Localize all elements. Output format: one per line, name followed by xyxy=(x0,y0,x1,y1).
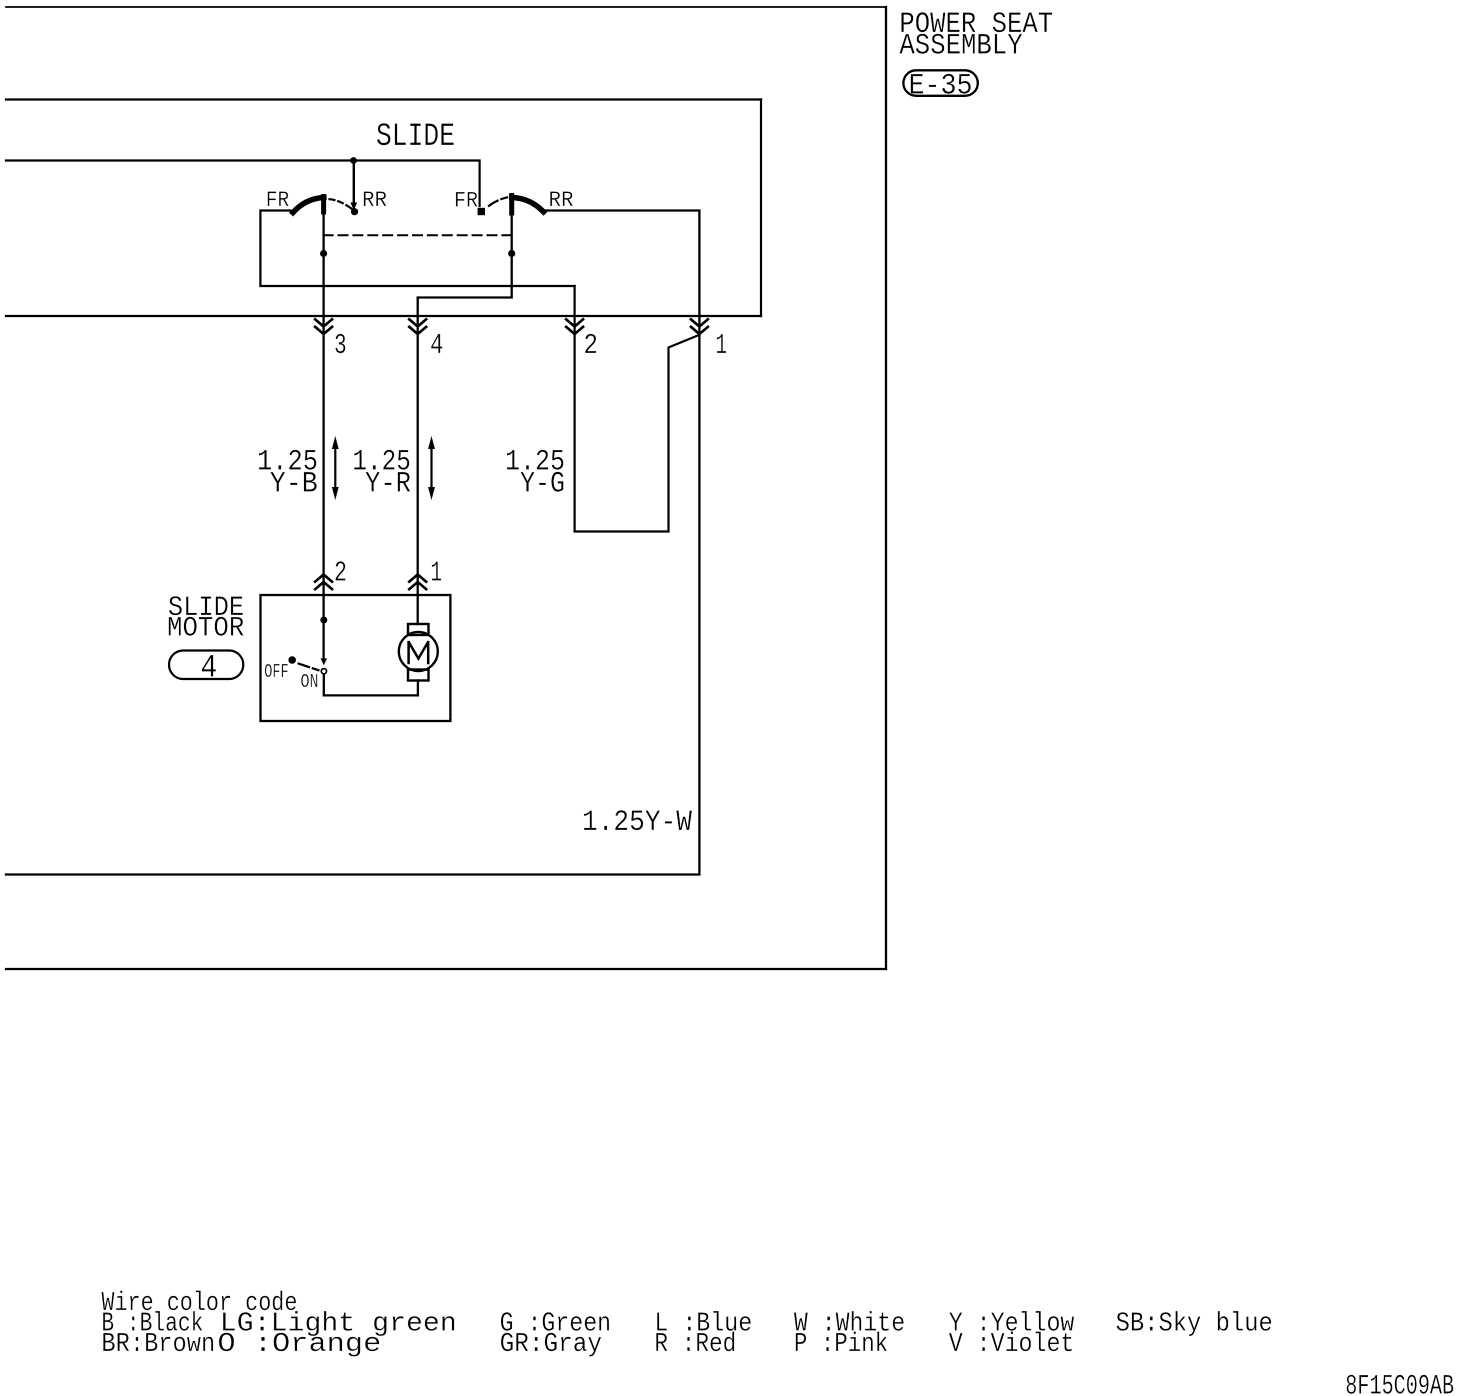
connector ref stadium 4 xyxy=(169,651,243,680)
svg-text:4: 4 xyxy=(430,328,444,362)
wire from switch S2 pivot with step to pin 4 and motor xyxy=(418,213,512,624)
direction arrow Y-B xyxy=(334,447,336,489)
node junction dot in motor box xyxy=(320,617,327,624)
switch S1 wiper arc (FR position) xyxy=(293,198,324,213)
svg-text:ASSEMBLY: ASSEMBLY xyxy=(899,30,1022,64)
motor M1 body circle xyxy=(399,632,438,671)
svg-text:Y-G: Y-G xyxy=(520,468,565,502)
svg-text:4: 4 xyxy=(200,650,217,687)
svg-text:GR:Gray: GR:Gray xyxy=(500,1330,602,1360)
svg-text:OFF: OFF xyxy=(264,663,288,684)
svg-text:V :Violet: V :Violet xyxy=(949,1330,1075,1360)
wire junction to RR contact of switch S1 xyxy=(353,161,355,203)
svg-text:MOTOR: MOTOR xyxy=(167,613,244,644)
switch S2 wiper arc (RR position) xyxy=(512,198,544,212)
wire Y-G: housing bottom to pin2 then jog to pin1 xyxy=(575,286,700,532)
connector pin 1 chevrons xyxy=(691,319,708,334)
switch S2 dashed throw to FR xyxy=(489,197,508,206)
outer box top wire xyxy=(6,6,886,8)
contact square FR of switch S2 xyxy=(478,208,485,215)
OFF contact dot xyxy=(288,656,296,664)
svg-text:BR:Brown: BR:Brown xyxy=(101,1330,215,1360)
direction arrow Y-R xyxy=(430,447,432,489)
motor M1 bottom terminal xyxy=(408,670,429,681)
power seat assembly inner box bottom wire xyxy=(6,315,761,317)
wire ON contact to motor bottom xyxy=(324,674,418,695)
svg-text:FR: FR xyxy=(454,189,478,214)
svg-text:1.25Y-W: 1.25Y-W xyxy=(582,806,693,840)
switch lever dashed xyxy=(299,664,320,671)
wire from switch S2 RR contact to pin 1 and 1.25Y-W run xyxy=(6,211,699,875)
power seat assembly inner box right edge xyxy=(760,100,762,317)
node RR contact dot S1 xyxy=(351,208,358,215)
ON contact circle xyxy=(321,669,326,674)
svg-text:FR: FR xyxy=(266,188,290,213)
wire FR1 contact to housing left xyxy=(260,211,574,287)
switch S1 dashed throw to RR xyxy=(330,199,353,209)
svg-text:1: 1 xyxy=(716,328,728,362)
svg-text:2: 2 xyxy=(584,328,599,362)
connector pin 3 chevrons xyxy=(315,319,332,334)
svg-text:E-35: E-35 xyxy=(909,70,973,104)
node dot on pivot2 wire xyxy=(508,250,515,257)
svg-text:3: 3 xyxy=(334,328,347,362)
svg-text:ON: ON xyxy=(301,672,319,693)
outer box bottom wire xyxy=(6,968,886,970)
svg-text:Y-B: Y-B xyxy=(270,468,318,502)
svg-text:Y-R: Y-R xyxy=(365,468,411,502)
svg-text:SB:Sky blue: SB:Sky blue xyxy=(1116,1309,1273,1339)
arrowhead at RR contact S1 xyxy=(350,203,357,211)
switch S1 pivot bar xyxy=(321,197,326,213)
svg-text:2: 2 xyxy=(334,556,347,590)
node dot on pivot1 wire xyxy=(320,250,327,257)
svg-text:P :Pink: P :Pink xyxy=(794,1330,888,1360)
power seat assembly inner box top wire xyxy=(6,98,761,100)
outer box right edge xyxy=(885,7,887,969)
wire from switch S1 pivot down to motor switch xyxy=(322,212,324,658)
svg-text:R :Red: R :Red xyxy=(654,1330,736,1360)
node junction on SLIDE feed xyxy=(350,157,357,164)
svg-text:RR: RR xyxy=(362,188,387,213)
svg-text:RR: RR xyxy=(549,188,574,213)
motor pin 1 chevrons (up) xyxy=(409,575,426,590)
svg-text:SLIDE: SLIDE xyxy=(376,118,455,155)
connector ref stadium E-35 xyxy=(903,70,977,96)
motor M letter xyxy=(409,642,429,663)
connector pin 4 chevrons xyxy=(409,319,426,334)
connector pin 2 chevrons xyxy=(566,319,583,334)
motor M1 top terminal xyxy=(408,624,429,635)
dashed mechanical linkage between wipers xyxy=(324,234,512,236)
svg-text:1: 1 xyxy=(431,556,443,590)
switch S2 pivot bar xyxy=(509,196,514,214)
wire SLIDE feed, into FR contact of switch S2 xyxy=(6,161,480,207)
svg-text:8F15C09AB: 8F15C09AB xyxy=(1345,1371,1454,1396)
svg-text:O :Orange: O :Orange xyxy=(217,1330,381,1360)
arrowhead at ON contact xyxy=(321,658,328,665)
slide motor box xyxy=(261,595,451,721)
motor pin 2 chevrons (up) xyxy=(315,575,332,590)
